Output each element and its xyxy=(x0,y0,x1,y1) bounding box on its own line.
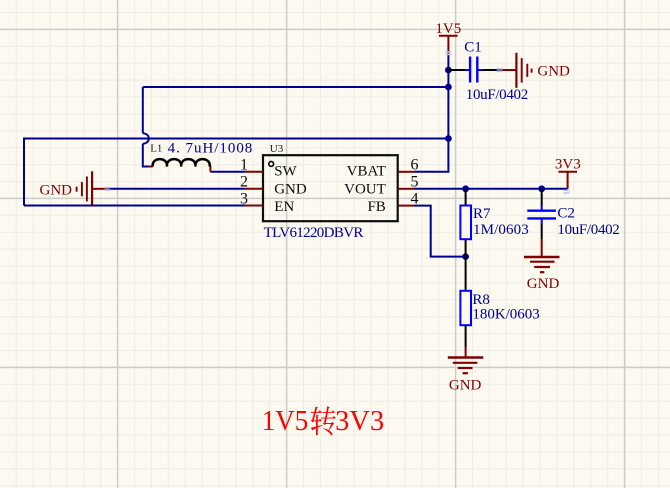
ground GND at C1 (bar style) xyxy=(500,53,532,88)
capacitor C1 xyxy=(448,69,465,71)
wire right trunk to VBAT pin 6 xyxy=(414,70,448,172)
wire EN to pin 3 xyxy=(24,205,245,207)
junction FB / R7 / R8 xyxy=(462,253,469,260)
svg-text:VOUT: VOUT xyxy=(344,182,386,198)
svg-text:6: 6 xyxy=(411,157,419,174)
svg-text:U3: U3 xyxy=(270,143,284,155)
svg-text:R7: R7 xyxy=(473,206,491,222)
svg-text:VBAT: VBAT xyxy=(347,164,386,180)
svg-text:C2: C2 xyxy=(557,206,575,222)
wire 1V5 stem lower xyxy=(447,54,449,70)
svg-text:L1: L1 xyxy=(150,142,162,154)
wire SW vertical with hop xyxy=(143,87,148,167)
wire FB loop xyxy=(414,206,466,257)
junction VOUT / R7 xyxy=(462,185,469,192)
pin 6 VBAT stub xyxy=(399,171,414,173)
svg-text:SW: SW xyxy=(274,164,297,180)
junction at 1V5 / C1 / VBAT trunk xyxy=(445,67,452,74)
svg-text:3V3: 3V3 xyxy=(555,157,581,173)
IC U3 TLV61220DBVR xyxy=(263,155,398,221)
svg-text:4. 7uH/1008: 4. 7uH/1008 xyxy=(168,140,253,156)
pin 2 GND stub xyxy=(245,188,263,190)
svg-text:3: 3 xyxy=(240,190,248,207)
svg-text:5: 5 xyxy=(411,174,419,191)
junction EN net on trunk xyxy=(445,135,452,142)
ground GND below C2 (earth style) xyxy=(524,257,560,272)
svg-text:4: 4 xyxy=(411,190,419,207)
svg-text:1V5: 1V5 xyxy=(435,21,461,37)
svg-text:GND: GND xyxy=(274,182,307,198)
wire horizontal net EN/VBAT xyxy=(24,138,448,139)
junction VOUT / C2 xyxy=(538,185,545,192)
power port 3V3 xyxy=(559,172,578,189)
svg-text:EN: EN xyxy=(274,199,294,215)
svg-text:GND: GND xyxy=(449,377,482,393)
wire hop arc xyxy=(143,133,149,144)
svg-text:FB: FB xyxy=(367,199,385,215)
wire endpoint markers xyxy=(105,52,570,193)
pin 5 VOUT stub xyxy=(399,188,414,190)
wire VOUT rail xyxy=(414,188,568,190)
ground GND left (bar style) xyxy=(77,171,108,205)
capacitor C2 xyxy=(541,189,543,206)
wire horizontal net SW top xyxy=(143,86,449,88)
svg-text:GND: GND xyxy=(40,183,73,199)
svg-text:2: 2 xyxy=(240,174,248,191)
resistor R7 xyxy=(465,189,467,257)
wire left trunk vertical xyxy=(23,139,25,206)
svg-text:1M/0603: 1M/0603 xyxy=(473,222,529,238)
pin 4 FB stub xyxy=(399,205,414,207)
inductor L1 xyxy=(148,167,210,172)
resistor R8 xyxy=(465,257,467,291)
power port 1V5 xyxy=(439,36,458,54)
svg-text:GND: GND xyxy=(537,64,570,80)
wire GND to pin 2 xyxy=(108,188,245,190)
junction SW net on trunk xyxy=(445,84,452,91)
svg-text:10uF/0402: 10uF/0402 xyxy=(557,222,619,238)
pin 1 SW stub xyxy=(245,171,263,173)
svg-text:TLV61220DBVR: TLV61220DBVR xyxy=(264,225,364,241)
wire inductor to pin 1 xyxy=(210,171,245,173)
svg-text:1: 1 xyxy=(240,157,248,174)
svg-text:1V5: 1V5 xyxy=(262,406,309,437)
svg-text:R8: R8 xyxy=(472,292,490,308)
ground GND below R8 (earth style) xyxy=(448,358,484,374)
svg-text:3V3: 3V3 xyxy=(335,406,384,437)
svg-text:GND: GND xyxy=(527,276,560,292)
svg-text:10uF/0402: 10uF/0402 xyxy=(466,87,528,103)
svg-text:180K/0603: 180K/0603 xyxy=(472,307,539,323)
svg-text:C1: C1 xyxy=(464,40,482,56)
pin 3 EN stub xyxy=(245,205,263,207)
